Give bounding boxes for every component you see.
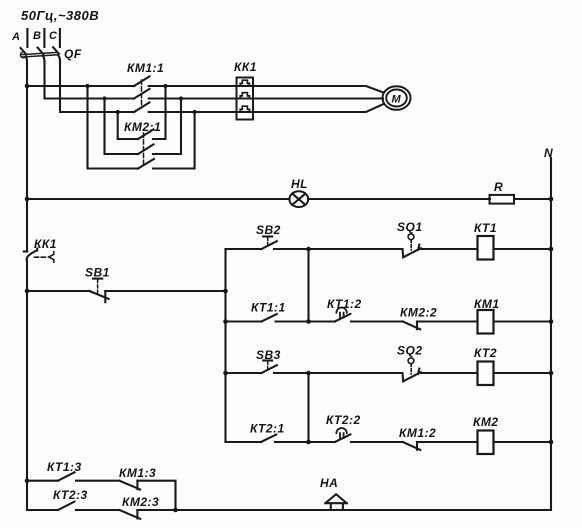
svg-text:КК1: КК1: [234, 60, 257, 74]
svg-text:КМ1:1: КМ1:1: [127, 61, 164, 75]
svg-text:QF: QF: [64, 47, 82, 61]
svg-text:SB3: SB3: [256, 348, 281, 362]
svg-text:КМ2: КМ2: [473, 415, 499, 429]
svg-text:КМ1: КМ1: [474, 297, 500, 311]
svg-text:HA: HA: [320, 476, 338, 490]
svg-text:R: R: [494, 180, 503, 194]
svg-text:HL: HL: [291, 177, 308, 191]
svg-text:КТ2:2: КТ2:2: [326, 413, 361, 427]
svg-text:SB2: SB2: [256, 223, 281, 237]
svg-text:SQ2: SQ2: [397, 344, 423, 358]
svg-text:КМ2:1: КМ2:1: [124, 120, 161, 134]
svg-text:КТ1:3: КТ1:3: [47, 460, 82, 474]
svg-text:SB1: SB1: [85, 266, 110, 280]
svg-text:A: A: [11, 31, 20, 43]
svg-text:КМ1:2: КМ1:2: [399, 426, 436, 440]
svg-text:КМ2:3: КМ2:3: [122, 495, 159, 509]
svg-text:C: C: [49, 30, 58, 42]
svg-text:КТ2:1: КТ2:1: [250, 422, 285, 436]
svg-text:КТ1: КТ1: [474, 221, 497, 235]
svg-text:SQ1: SQ1: [397, 220, 423, 234]
svg-text:КТ1:1: КТ1:1: [251, 301, 286, 315]
svg-text:M: M: [392, 94, 402, 106]
svg-text:N: N: [544, 146, 553, 160]
svg-text:КМ2:2: КМ2:2: [400, 306, 437, 320]
svg-text:КТ2: КТ2: [474, 346, 497, 360]
svg-text:КК1: КК1: [34, 237, 57, 251]
svg-text:КМ1:3: КМ1:3: [119, 466, 156, 480]
svg-text:КТ2:3: КТ2:3: [53, 488, 88, 502]
svg-text:КТ1:2: КТ1:2: [327, 297, 362, 311]
svg-text:50Гц,~380В: 50Гц,~380В: [21, 8, 99, 23]
svg-text:B: B: [33, 30, 41, 42]
